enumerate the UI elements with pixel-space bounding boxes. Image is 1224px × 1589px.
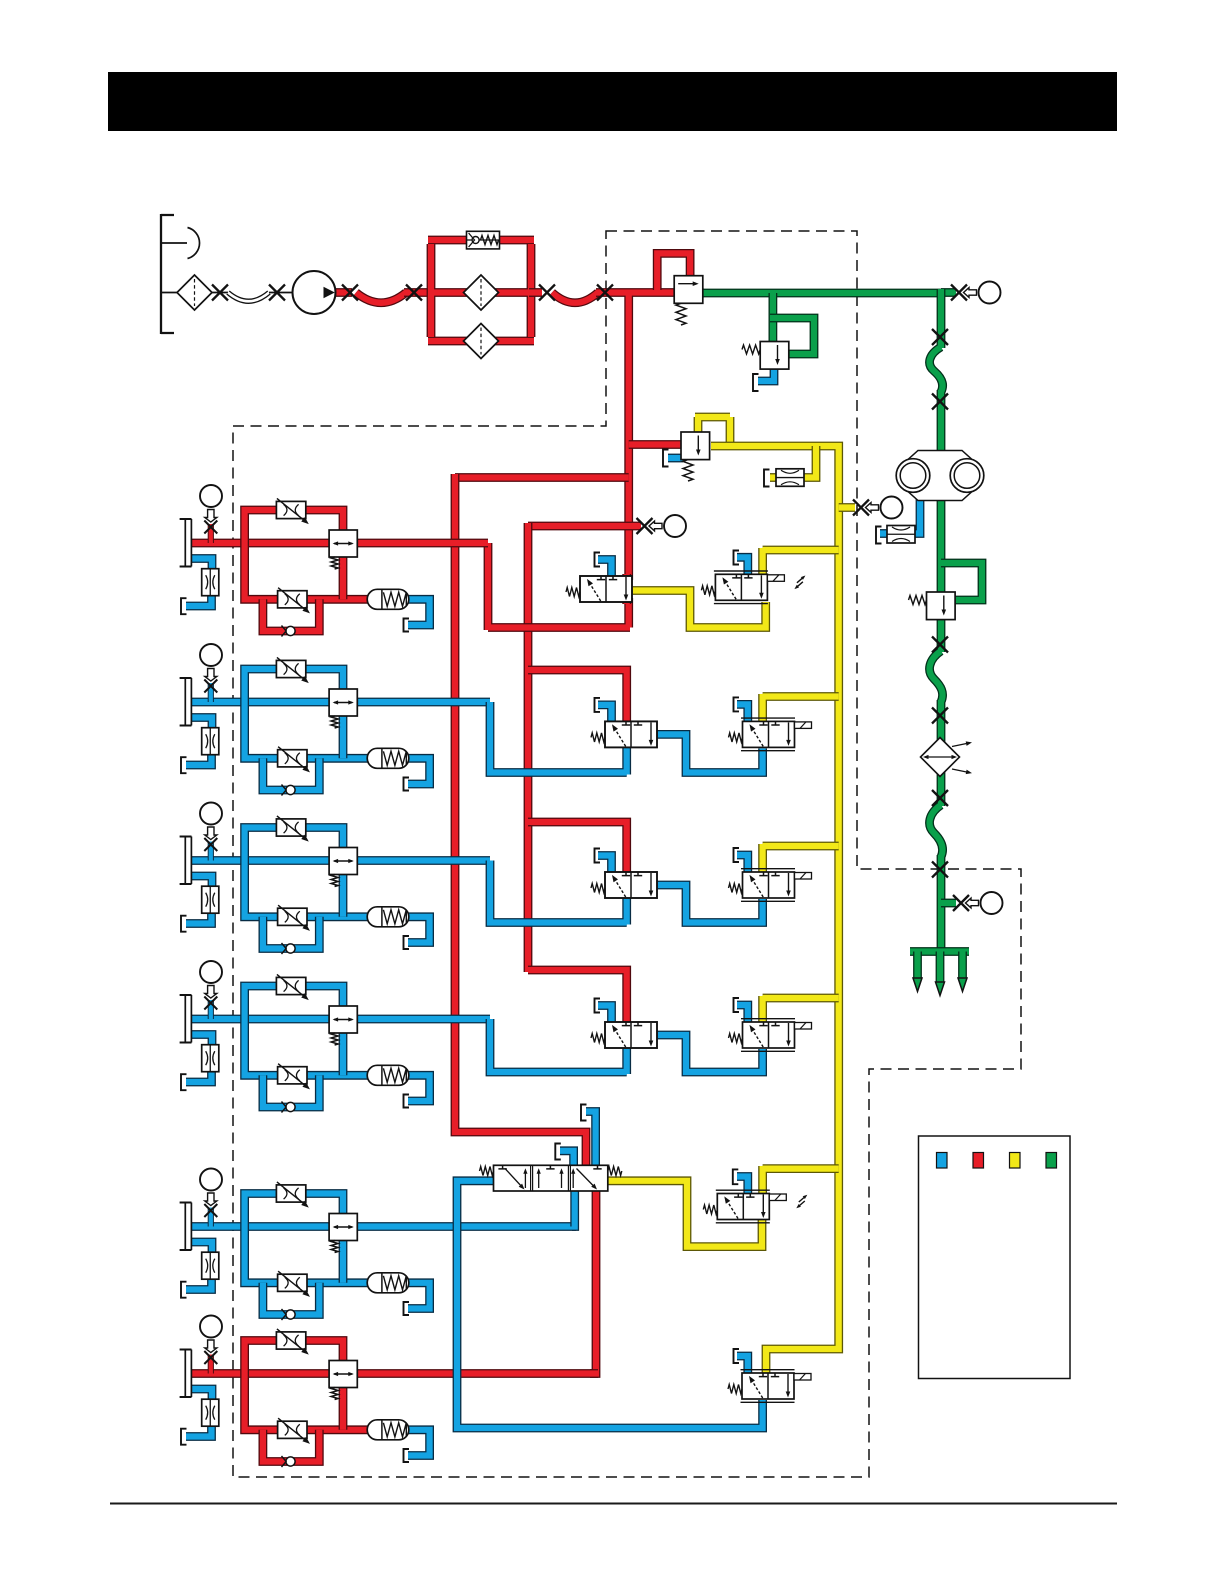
check valve module 3 bbox=[282, 943, 296, 954]
cylinder module 6 bbox=[180, 1350, 192, 1398]
cylinder fitting module 1 bbox=[204, 521, 217, 534]
cylinder fitting module 5 bbox=[204, 1204, 217, 1217]
legend box bbox=[919, 1136, 1071, 1379]
suction hose bbox=[228, 293, 269, 302]
module 6 cylinder main line bbox=[191, 1369, 598, 1378]
solenoid 2 tank drain bbox=[737, 704, 748, 723]
flow control lower module 5 bbox=[278, 1271, 310, 1297]
oil cooler bbox=[921, 738, 960, 777]
module 4 drain to orifice bbox=[191, 1035, 212, 1048]
wire unloader loop bbox=[770, 318, 814, 354]
module 3 orifice to tank bbox=[186, 911, 212, 924]
main relief valve bbox=[674, 276, 703, 304]
test point main pressure bbox=[637, 515, 687, 537]
wire supply branch valve 2 bbox=[528, 670, 627, 723]
tank solenoid 1 drain bbox=[734, 551, 740, 565]
solenoid valve 6 bbox=[741, 1370, 812, 1403]
wire pilot test branch bbox=[839, 503, 855, 512]
module 6 orifice to tank bbox=[186, 1424, 212, 1437]
tank module 5 accumulator drain bbox=[404, 1302, 410, 1315]
module 2 cylinder stub bbox=[208, 683, 214, 702]
wire bleed orifice to tank bbox=[770, 473, 778, 482]
tank valve 2 drain bbox=[595, 698, 601, 712]
cylinder module 2 bbox=[180, 678, 192, 726]
accumulator module 5 bbox=[367, 1273, 409, 1293]
fan bypass spring bbox=[909, 596, 927, 605]
module 6 cylinder stub bbox=[208, 1355, 214, 1374]
unloader valve tank drain bbox=[758, 367, 774, 381]
module 4 cylinder main line bbox=[191, 1015, 490, 1024]
tank solenoid 5 drain bbox=[733, 1169, 739, 1184]
charge arrow module 2 bbox=[205, 669, 217, 682]
pump bbox=[293, 271, 336, 314]
valve 4 tank drain bbox=[598, 1006, 612, 1025]
tank module 6 accumulator drain bbox=[404, 1449, 410, 1462]
module 4 accumulator tank link bbox=[406, 1075, 430, 1101]
module 4 cylinder stub bbox=[208, 1000, 214, 1019]
check valve module 2 bbox=[282, 785, 296, 796]
pressure filter 2 bbox=[464, 324, 499, 359]
test point return header bbox=[951, 282, 1001, 304]
fan motor case drain bbox=[913, 498, 920, 534]
valve 1 tank drain bbox=[598, 560, 612, 579]
cylinder module 4 bbox=[180, 995, 192, 1043]
module 2 check bypass loop bbox=[263, 758, 319, 790]
module 5 lower branch bbox=[245, 1227, 370, 1283]
wire levelling valve port to solenoid 5 bbox=[608, 1181, 762, 1247]
filter block loop bbox=[428, 240, 534, 341]
wire pilot pressure main bbox=[711, 446, 839, 1375]
pilot pressure reducing valve bbox=[681, 432, 710, 460]
module 4 check bypass loop bbox=[263, 1075, 319, 1107]
wire levelling valve port A to solenoid 6 bbox=[457, 1181, 763, 1428]
legend chip yellow bbox=[1010, 1153, 1021, 1169]
module 6 check bypass loop bbox=[263, 1430, 319, 1462]
gauge port module 2 bbox=[200, 644, 222, 666]
suction strainer bbox=[177, 275, 212, 310]
cylinder fitting module 6 bbox=[204, 1351, 217, 1364]
tank solenoid 4 drain bbox=[734, 998, 740, 1012]
wire pilot branch solenoid 3 bbox=[763, 844, 839, 874]
check valve module 5 bbox=[282, 1309, 296, 1320]
damping orifice module 4 bbox=[202, 1045, 219, 1072]
title bar bbox=[108, 72, 1117, 131]
reservoir breather bbox=[188, 228, 200, 259]
charge arrow module 1 bbox=[205, 510, 217, 523]
wire levelling valve port to module 5 main bbox=[572, 1189, 575, 1227]
wire pilot branch solenoid 1 bbox=[763, 548, 839, 576]
module 2 line to valve bottom bbox=[490, 702, 627, 775]
module 3 check bypass loop bbox=[263, 917, 319, 949]
module 3 shuttle drop bbox=[339, 873, 348, 917]
wire branch to left supply riser bbox=[455, 473, 629, 482]
legend chip green bbox=[1046, 1153, 1057, 1169]
solenoid valve 3 bbox=[741, 869, 812, 902]
module 5 drain to orifice bbox=[191, 1242, 212, 1255]
valve 2 tank drain bbox=[598, 705, 612, 724]
tank module 4 accumulator drain bbox=[404, 1095, 410, 1108]
bulkhead fitting X6 bbox=[597, 285, 613, 301]
module 6 raise branch bbox=[245, 1341, 343, 1374]
cylinder fitting module 4 bbox=[204, 997, 217, 1010]
module 2 raise branch bbox=[245, 669, 343, 702]
module 2 lower branch bbox=[245, 702, 370, 758]
dashed manifold boundary bbox=[233, 231, 1021, 1477]
test point tank return bbox=[953, 892, 1003, 914]
module 5 accumulator tank link bbox=[406, 1283, 430, 1309]
tank pilot valve drain bbox=[663, 450, 669, 467]
solenoid valve 2 bbox=[741, 718, 812, 751]
module 2 shuttle drop bbox=[339, 714, 348, 758]
module 3 drain to orifice bbox=[191, 876, 212, 889]
pilot bleed orifice bbox=[776, 469, 804, 487]
solenoid 5 tank drain bbox=[737, 1177, 748, 1196]
module 3 cylinder main line bbox=[191, 856, 490, 865]
fitting G1 bbox=[932, 329, 948, 345]
damping orifice module 2 bbox=[202, 728, 219, 755]
main relief spring bbox=[676, 303, 686, 325]
pilot valve 1 bbox=[580, 576, 632, 602]
gauge port module 5 bbox=[200, 1169, 222, 1191]
unloader valve spring bbox=[742, 345, 760, 354]
module 5 raise branch bbox=[245, 1194, 343, 1227]
check valve module 6 bbox=[282, 1456, 296, 1467]
flow control raise module 2 bbox=[276, 657, 308, 683]
wire valve 3 output to solenoid 3 bbox=[657, 885, 763, 923]
wire levelling valve tank drain B bbox=[586, 1112, 596, 1168]
pressure filter 1 bbox=[464, 275, 499, 310]
solenoid 1 tank drain bbox=[737, 557, 748, 576]
module 1 drain to orifice bbox=[191, 559, 212, 572]
module 4 lower branch bbox=[245, 1019, 370, 1075]
module 5 shuttle drop bbox=[339, 1239, 348, 1283]
suction line bbox=[161, 292, 228, 294]
wire bypass valve loop bbox=[941, 563, 982, 600]
accumulator module 1 bbox=[367, 589, 409, 609]
wire module 1 supply link bbox=[488, 543, 630, 630]
tank valve 1 drain bbox=[595, 553, 601, 567]
wire pilot branch solenoid 5 bbox=[763, 1166, 839, 1195]
flow control lower module 2 bbox=[278, 747, 310, 773]
fitting X1 bbox=[212, 285, 228, 301]
wire centre supply riser bbox=[524, 523, 533, 972]
tank solenoid 3 drain bbox=[734, 848, 740, 862]
tank module 4 orifice drain bbox=[181, 1074, 187, 1090]
check valve module 1 bbox=[282, 626, 296, 637]
return diffuser bbox=[910, 947, 969, 956]
module 2 drain to orifice bbox=[191, 718, 212, 731]
check valve module 4 bbox=[282, 1102, 296, 1113]
wire to filter inlet bbox=[404, 288, 433, 297]
accumulator module 4 bbox=[367, 1065, 409, 1085]
solenoid valve 5 bbox=[716, 1190, 808, 1223]
module 2 cylinder main line bbox=[191, 698, 490, 707]
wire tank test stub bbox=[941, 899, 956, 908]
damping orifice module 1 bbox=[202, 569, 219, 596]
fan motor drain orifice bbox=[887, 526, 915, 544]
tank module 6 orifice drain bbox=[181, 1429, 187, 1445]
module 1 lower branch bbox=[245, 543, 370, 599]
green relief output short bbox=[700, 289, 704, 298]
tank module 3 accumulator drain bbox=[404, 936, 410, 949]
charge arrow module 5 bbox=[205, 1193, 217, 1206]
levelling valve spring left bbox=[480, 1167, 494, 1176]
pump suction stub bbox=[269, 292, 293, 294]
wire pilot valve loop bbox=[695, 417, 730, 446]
fan motor drain to tank bbox=[880, 529, 889, 538]
damping orifice module 5 bbox=[202, 1252, 219, 1279]
wire filter outlet bbox=[529, 288, 542, 297]
module 1 shuttle drop bbox=[339, 555, 348, 599]
module 1 orifice to tank bbox=[186, 593, 212, 606]
flow control lower module 1 bbox=[278, 588, 310, 614]
accumulator module 6 bbox=[367, 1420, 409, 1440]
module 1 raise branch bbox=[245, 510, 343, 543]
module 4 shuttle drop bbox=[339, 1031, 348, 1075]
fitting X4 bbox=[406, 285, 422, 301]
wire levelling valve to module 6 bbox=[590, 1189, 596, 1374]
module 2 accumulator tank link bbox=[406, 758, 430, 784]
tank module 1 accumulator drain bbox=[404, 619, 410, 632]
tank module 2 orifice drain bbox=[181, 757, 187, 773]
module 1 cylinder stub bbox=[208, 524, 214, 543]
wire supply through valve 1 bbox=[622, 574, 631, 604]
fitting X3 bbox=[342, 285, 358, 301]
fitting G5 bbox=[932, 790, 948, 806]
module 6 accumulator tank link bbox=[406, 1430, 430, 1456]
reservoir bbox=[161, 214, 174, 334]
pilot check module 4 bbox=[329, 1006, 357, 1033]
wire feed to pilot reducing valve bbox=[629, 440, 681, 449]
flow control raise module 5 bbox=[276, 1182, 308, 1208]
fitting G3 bbox=[932, 637, 948, 653]
charge arrow module 6 bbox=[205, 1340, 217, 1353]
wire pump outlet bbox=[335, 288, 352, 297]
flow control lower module 3 bbox=[278, 905, 310, 931]
wire pilot branch solenoid 2 bbox=[763, 694, 839, 723]
levelling control valve bbox=[494, 1165, 608, 1191]
pilot reducing valve tank drain bbox=[668, 454, 683, 463]
wire levelling valve tank drain A bbox=[560, 1151, 574, 1167]
tank module 2 accumulator drain bbox=[404, 778, 410, 791]
tank valve 4 drain bbox=[595, 999, 601, 1013]
wire pilot bleed branch bbox=[801, 446, 816, 478]
filter bypass check valve bbox=[467, 231, 500, 249]
wire valve 2 output to solenoid 2 bbox=[657, 734, 763, 772]
wire tee to unloader valve bbox=[769, 293, 778, 343]
fitting X2 bbox=[269, 285, 285, 301]
damping orifice module 3 bbox=[202, 886, 219, 913]
pilot reducing spring bbox=[683, 460, 693, 481]
pilot check module 5 bbox=[329, 1214, 357, 1241]
pilot valve 3 bbox=[605, 872, 657, 898]
module 3 accumulator tank link bbox=[406, 917, 430, 943]
module 4 raise branch bbox=[245, 986, 343, 1019]
solenoid valve 4 bbox=[741, 1019, 812, 1052]
unloader reducing valve bbox=[760, 342, 789, 370]
cylinder module 1 bbox=[180, 519, 192, 567]
flow control raise module 4 bbox=[276, 974, 308, 1000]
pilot valve 4 bbox=[605, 1022, 657, 1048]
gauge port module 6 bbox=[200, 1316, 222, 1338]
pilot check module 6 bbox=[329, 1361, 357, 1388]
tank valve 3 drain bbox=[595, 849, 601, 863]
tank pilot bleed bbox=[764, 470, 770, 487]
fitting G2 bbox=[932, 394, 948, 410]
pilot valve 2 bbox=[605, 721, 657, 747]
wire valve 4 output to solenoid 4 bbox=[657, 1035, 763, 1072]
accumulator module 2 bbox=[367, 748, 409, 768]
module 1 accumulator tank link bbox=[406, 599, 430, 625]
wire supply branch valve 4 bbox=[528, 970, 627, 1024]
module 5 orifice to tank bbox=[186, 1277, 212, 1290]
legend chip red bbox=[973, 1153, 984, 1169]
module 6 lower branch bbox=[245, 1374, 370, 1430]
wire supply branch valve 3 bbox=[528, 822, 627, 874]
gauge port module 3 bbox=[200, 803, 222, 825]
wire pilot branch solenoid 4 bbox=[763, 996, 839, 1024]
wire return column with hoses bbox=[930, 289, 943, 950]
tank solenoid 2 drain bbox=[734, 697, 740, 711]
module 5 cylinder stub bbox=[208, 1208, 214, 1227]
module 1 check bypass loop bbox=[263, 599, 319, 631]
legend chip blue bbox=[937, 1153, 948, 1169]
cylinder module 3 bbox=[180, 837, 192, 885]
gauge port module 4 bbox=[200, 961, 222, 983]
module 3 cylinder stub bbox=[208, 842, 214, 861]
module 6 shuttle drop bbox=[339, 1386, 348, 1430]
tank module 3 orifice drain bbox=[181, 916, 187, 932]
flow control lower module 6 bbox=[278, 1418, 310, 1444]
tank levelling drain B bbox=[581, 1105, 587, 1121]
solenoid 4 tank drain bbox=[737, 1005, 748, 1024]
solenoid 3 tank drain bbox=[737, 855, 748, 874]
flow control raise module 3 bbox=[276, 816, 308, 842]
flow control raise module 6 bbox=[276, 1329, 308, 1355]
module 2 orifice to tank bbox=[186, 752, 212, 765]
gauge port module 1 bbox=[200, 485, 222, 507]
levelling valve spring right bbox=[608, 1167, 622, 1176]
hose pump to filter bbox=[356, 293, 406, 303]
tank module 5 orifice drain bbox=[181, 1282, 187, 1298]
main relief valve pilot loop bbox=[657, 253, 690, 290]
tank solenoid 6 drain bbox=[734, 1349, 740, 1363]
charge arrow module 3 bbox=[205, 827, 217, 840]
hose filter to manifold bbox=[552, 293, 598, 303]
bulkhead fitting G6 bbox=[932, 862, 948, 878]
flow control lower module 4 bbox=[278, 1064, 310, 1090]
charge arrow module 4 bbox=[205, 986, 217, 999]
cylinder module 5 bbox=[180, 1203, 192, 1251]
wire return test stub bbox=[941, 288, 956, 297]
wire main pressure riser bbox=[596, 293, 676, 581]
cylinder fitting module 2 bbox=[204, 680, 217, 693]
tank levelling drain A bbox=[555, 1144, 561, 1160]
solenoid 6 tank drain bbox=[737, 1356, 748, 1375]
wire return header bbox=[702, 289, 941, 298]
fitting X5 bbox=[539, 285, 555, 301]
module 5 check bypass loop bbox=[263, 1283, 319, 1315]
tank fan drain bbox=[876, 527, 882, 544]
test point pilot pressure bbox=[853, 497, 903, 519]
valve 3 tank drain bbox=[598, 856, 612, 875]
module 5 cylinder main line bbox=[191, 1222, 576, 1231]
flow control raise module 1 bbox=[276, 498, 308, 524]
module 3 line to valve bottom bbox=[490, 861, 627, 925]
module 3 lower branch bbox=[245, 861, 370, 917]
fitting G4 bbox=[932, 708, 948, 724]
accumulator module 3 bbox=[367, 907, 409, 927]
pilot check module 3 bbox=[329, 848, 357, 875]
fan motor assembly bbox=[908, 451, 972, 501]
tank module 1 orifice drain bbox=[181, 598, 187, 614]
footer rule bbox=[110, 1503, 1117, 1505]
damping orifice module 6 bbox=[202, 1399, 219, 1426]
pilot check module 2 bbox=[329, 689, 357, 716]
wire valve 1 output to solenoid 1 bbox=[631, 591, 766, 628]
module 4 orifice to tank bbox=[186, 1069, 212, 1082]
solenoid valve 1 bbox=[714, 571, 806, 604]
wire left supply riser to levelling valve bbox=[455, 474, 586, 1167]
pilot check module 1 bbox=[329, 530, 357, 557]
wire branch to test point M1 bbox=[528, 522, 641, 531]
fan bypass valve bbox=[927, 592, 956, 620]
module 3 raise branch bbox=[245, 828, 343, 861]
module 1 cylinder main line bbox=[191, 539, 488, 548]
module 4 line to valve bottom bbox=[490, 1019, 627, 1074]
cylinder fitting module 3 bbox=[204, 838, 217, 851]
tank unloader drain bbox=[753, 374, 759, 391]
module 6 drain to orifice bbox=[191, 1389, 212, 1402]
